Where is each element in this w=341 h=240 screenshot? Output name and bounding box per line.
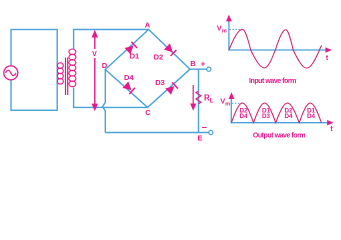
svg-text:B: B — [190, 59, 196, 68]
svg-text:+: + — [201, 60, 206, 69]
svg-text:Vm: Vm — [220, 97, 230, 108]
svg-text:Vm: Vm — [217, 23, 227, 34]
V measurement arrow — [91, 30, 100, 112]
svg-text:D: D — [102, 61, 108, 70]
diode D4 — [123, 82, 136, 95]
bridge diamond wires — [105, 30, 190, 108]
output vertical axis — [230, 95, 232, 123]
wire node B to + terminal — [190, 68, 207, 70]
svg-text:V: V — [92, 51, 97, 58]
svg-text:D3: D3 — [155, 78, 165, 87]
svg-text:C: C — [145, 108, 151, 117]
diode D3 — [165, 82, 178, 95]
output vertical axis arrowhead — [229, 92, 235, 99]
dotted peak reference output — [232, 102, 243, 104]
load branch wire — [198, 69, 200, 132]
diode D1 — [125, 42, 138, 55]
input vertical axis arrowhead — [226, 15, 232, 22]
svg-text:RL: RL — [204, 93, 214, 104]
wire node D down to bottom rail with hop — [103, 70, 106, 133]
input horizontal axis arrowhead — [325, 47, 332, 52]
dotted peak reference input — [230, 28, 242, 30]
primary loop rectangle wire — [11, 30, 57, 111]
svg-text:D4: D4 — [307, 113, 316, 120]
diode D2 — [164, 43, 177, 56]
resistor RL zigzag — [196, 91, 201, 104]
svg-text:D4: D4 — [284, 113, 293, 120]
transformer primary coil — [57, 63, 63, 69]
svg-text:D2: D2 — [154, 53, 164, 62]
wire secondary bottom to node C — [74, 88, 148, 108]
AC source — [4, 66, 18, 80]
transformer secondary coil — [69, 49, 76, 55]
svg-text:t: t — [330, 126, 333, 133]
svg-text:D4: D4 — [124, 73, 134, 82]
svg-text:A: A — [145, 21, 151, 30]
output horizontal axis arrowhead — [327, 120, 334, 125]
svg-text:Input wave form: Input wave form — [249, 78, 296, 85]
svg-text:D4: D4 — [239, 113, 248, 120]
svg-text:E: E — [197, 133, 202, 142]
svg-text:D3: D3 — [262, 113, 271, 120]
transformer core — [65, 58, 67, 96]
- output terminal — [209, 130, 213, 134]
output rectified humps — [231, 103, 321, 123]
svg-text:t: t — [326, 55, 329, 62]
svg-text:Output wave form: Output wave form — [253, 132, 306, 139]
input horizontal axis — [228, 49, 327, 51]
output horizontal axis — [231, 122, 329, 124]
svg-text:D1: D1 — [130, 52, 140, 61]
input sine wave — [229, 29, 322, 68]
bottom rail to E terminal — [105, 132, 208, 134]
wire secondary top to node A — [74, 30, 149, 51]
+ output terminal — [207, 67, 211, 71]
current arrow beside RL — [190, 85, 196, 111]
input vertical axis — [228, 17, 230, 51]
svg-text:−: − — [202, 123, 207, 133]
